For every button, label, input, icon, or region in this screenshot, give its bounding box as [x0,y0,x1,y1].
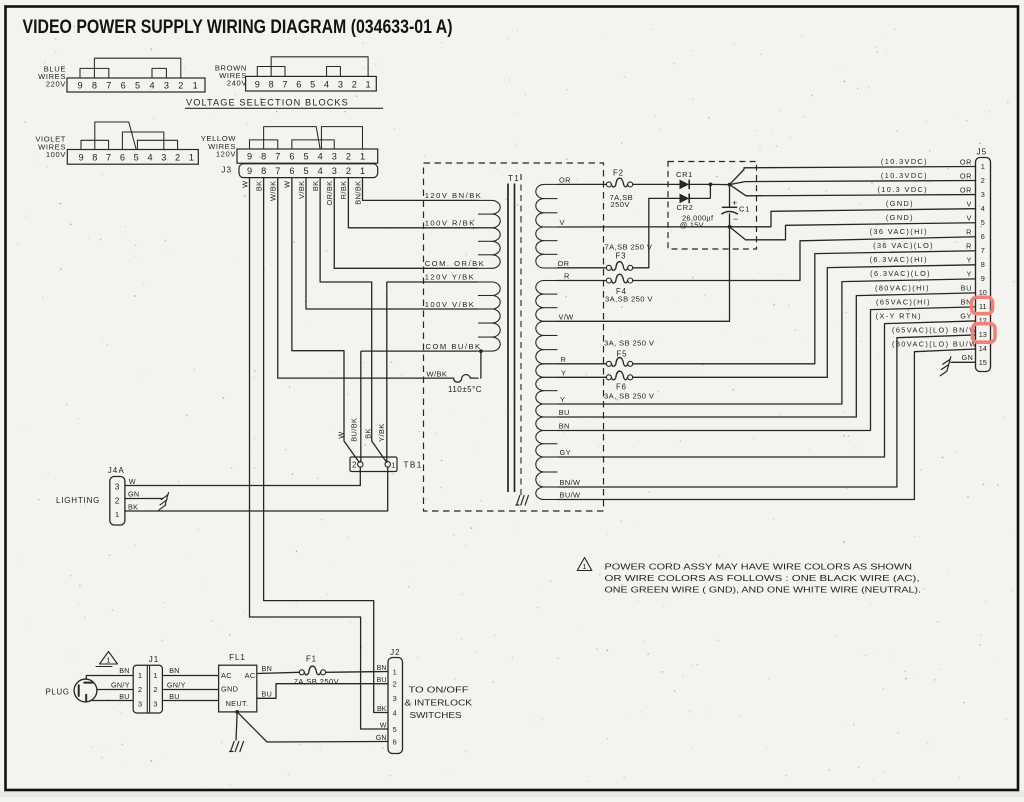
wire Y/BK into T1 [387,281,478,283]
jumper 120V pins 6-3 [292,140,334,149]
wire R tap to F5 [558,363,607,365]
svg-text:120V BN/BK: 120V BN/BK [425,191,483,200]
svg-text:NEUT.: NEUT. [226,699,249,708]
svg-text:+: + [732,197,737,207]
voltage block YELLOW WIRES 120V (9..1) [237,149,378,163]
svg-text:1: 1 [115,510,120,519]
jumper 100V pins 6-3 [122,132,163,150]
jumper 100V pins 5-2 [137,140,177,149]
svg-text:W: W [129,477,136,486]
svg-text:(6.3VAC)(HI): (6.3VAC)(HI) [870,255,928,264]
wire FL1 AC out BN to F1 [257,672,299,673]
plug wire GN/Y to J1-2 [97,689,133,691]
svg-text:VIDEO POWER SUPPLY WIRING DIAG: VIDEO POWER SUPPLY WIRING DIAGRAM (03463… [23,17,453,38]
wire FL1 NEUT BU to J2-2 [257,684,388,699]
jumper 220V pins 8-2 [94,58,180,78]
T1 primary winding 120V/100V (BN/BK,R/BK,OR/BK) [492,200,500,227]
warning triangle 1 note [577,558,592,571]
svg-text:BK: BK [377,706,387,713]
chassis ground below FL1 [230,742,244,752]
svg-text:J3: J3 [221,165,232,174]
svg-text:R/BK: R/BK [339,181,348,200]
svg-text:W: W [240,181,249,188]
svg-text:TO ON/OFF: TO ON/OFF [409,686,469,695]
svg-text:BN: BN [262,664,273,673]
svg-text:OR WIRE COLORS AS FOLLOWS :: OR WIRE COLORS AS FOLLOWS : ONE BLACK WI… [605,574,920,583]
svg-text:Y: Y [561,368,566,377]
svg-text:14: 14 [979,344,987,353]
chassis ground at J5-15 [940,357,951,376]
diode CR2 [680,194,690,204]
svg-text:SWITCHES: SWITCHES [410,711,462,720]
svg-text:F6: F6 [616,382,627,391]
wire J5-15 GN with chassis ground [951,361,976,363]
thermal fuse 110+-5C symbol [454,375,479,383]
plug wire BU to J1-3 [90,700,134,702]
FL1 ground node [235,710,239,714]
svg-text:GY: GY [560,448,571,457]
svg-text:8: 8 [269,79,274,89]
connector J1 [133,665,162,713]
svg-text:J1: J1 [149,655,159,664]
svg-text:OR: OR [960,185,972,194]
svg-text:3: 3 [338,79,343,89]
voltage block BLUE WIRES 220V (9..1) [67,78,205,92]
riser TB1-2 BU/BK up to COM [360,351,362,462]
svg-text:BU/BK: BU/BK [350,418,359,442]
wire J3-9 W to J2-5 [250,617,389,729]
svg-text:3: 3 [153,700,158,709]
svg-text:(6.3VAC)(LO): (6.3VAC)(LO) [870,269,931,278]
wire C1- to J5-4 (GND V) [730,209,976,227]
svg-text:120V Y/BK: 120V Y/BK [425,273,476,282]
fuse F2 [606,182,611,187]
svg-text:13: 13 [979,330,987,339]
svg-text:4: 4 [324,79,329,89]
jumper 240V pins 8-1 [271,57,368,77]
svg-text:11: 11 [979,302,987,311]
wire J3-5 V/BK to T1 100V [306,178,478,309]
wire C1- to J5-5 (GND V) [730,223,976,240]
svg-text:7: 7 [275,152,280,162]
connector J2 [388,658,403,754]
svg-text:2: 2 [115,495,120,505]
svg-text:(X-Y RTN): (X-Y RTN) [876,311,922,320]
svg-text:W/BK: W/BK [426,369,447,378]
svg-text:BN: BN [559,422,570,431]
svg-text:1: 1 [391,460,395,469]
svg-text:9: 9 [247,152,252,162]
svg-text:BN: BN [169,666,180,675]
svg-text:6: 6 [289,152,294,162]
svg-text:1: 1 [153,671,158,680]
wire F2 to CR1 [633,183,680,185]
svg-text:V: V [560,218,565,227]
red annotation box around J5 pin 13 [973,324,996,343]
svg-text:& INTERLOCK: & INTERLOCK [405,698,473,707]
svg-text:Y: Y [967,256,972,265]
svg-text:7: 7 [275,166,280,176]
svg-text:1: 1 [366,79,371,89]
svg-text:7: 7 [282,79,287,89]
svg-text:1: 1 [360,166,365,176]
svg-text:2: 2 [346,152,351,162]
chassis ground at J4A GN [159,493,169,511]
wire OR tap to F2 [558,183,607,185]
wire TB1-2 down-left to J4A-3 (W) [125,467,360,486]
svg-text:220V: 220V [46,80,66,89]
connector J5 [976,158,991,372]
svg-text:R: R [561,355,567,364]
svg-text:BK: BK [311,181,320,192]
svg-text:100V: 100V [46,150,66,159]
svg-text:7: 7 [981,246,985,255]
svg-text:8: 8 [261,166,266,176]
svg-text:V: V [967,199,972,208]
svg-text:3A,SB 250 V: 3A,SB 250 V [605,294,653,303]
voltage block BROWN WIRES 240V (9..1) [246,76,377,91]
svg-text:1: 1 [189,153,194,163]
wire to J5-2 (10.3VDC OR) [730,181,976,185]
wire CR2 cathode up to CR1 output [709,184,711,198]
svg-text:6: 6 [296,79,301,89]
T1 primary winding 120V/100V (Y/BK,V/BK,BU/BK) [492,282,500,309]
svg-text:4: 4 [981,204,985,213]
wire TB1-1 down-left to J4A-1 (BK) [125,467,388,511]
svg-text:W: W [336,431,345,438]
svg-text:9: 9 [255,79,260,89]
junction node rectifier output [710,183,729,185]
svg-text:R: R [564,271,570,280]
voltage block VIOLET WIRES 100V (9..1) [67,150,198,165]
svg-text:5: 5 [393,725,398,734]
svg-text:F5: F5 [617,349,628,358]
svg-text:3A, SB 250 V: 3A, SB 250 V [604,338,655,347]
svg-text:−: − [733,214,738,224]
svg-text:BN/BK: BN/BK [353,181,362,205]
svg-text:1: 1 [360,152,365,162]
svg-text:V/BK: V/BK [297,181,306,199]
wire FL1 gnd down to chassis ground [236,712,237,741]
wire COM BU/BK from TB1 riser [361,350,478,352]
svg-text:5: 5 [134,153,139,163]
svg-text:(65VAC)(HI): (65VAC)(HI) [876,297,931,306]
svg-text:AC: AC [221,671,232,680]
svg-text:Y/BK: Y/BK [377,423,386,441]
wire J3-4 BK down [319,178,321,282]
svg-text:POWER CORD ASSY MAY HAVE WI: POWER CORD ASSY MAY HAVE WIRE COLORS AS … [605,562,913,571]
svg-text:5: 5 [303,152,308,162]
wire F3 to CR2 riser [633,198,680,267]
svg-text:7: 7 [106,153,111,163]
fuse F3 [606,265,611,270]
wire J1 to FL1 BN [162,675,218,677]
svg-text:8: 8 [92,153,97,163]
svg-text:3A, SB 250 V: 3A, SB 250 V [604,391,655,400]
T1 secondary winding lower stack (R..BU/W) [536,281,544,322]
svg-text:GN/Y: GN/Y [167,680,186,689]
svg-text:GN: GN [128,490,139,499]
svg-text:2: 2 [153,685,158,694]
wire J3-6 W down [291,178,293,351]
svg-text:PLUG: PLUG [46,688,70,697]
jumper 100V pins 9-7 [81,140,109,149]
svg-text:V: V [967,214,972,223]
svg-text:2: 2 [178,80,183,90]
svg-text:R: R [966,228,972,237]
wire Y tap to J5-9 (6.3VAC LO Y) [558,279,976,404]
svg-text:6: 6 [981,232,985,241]
svg-text:BU: BU [377,677,387,684]
svg-text:2: 2 [346,166,351,176]
rectifier dashed box (CR1 CR2 C1) [668,162,757,250]
wire Y tap to F6 [558,376,607,378]
wire F4 out to J5-6 (36VAC HI R) [633,237,976,281]
warning triangle 1 near J1 [96,652,118,667]
svg-text:T1: T1 [508,174,520,183]
svg-text:100V R/BK: 100V R/BK [425,218,476,227]
svg-text:F3: F3 [616,251,627,260]
terminal block TB1 [350,457,397,472]
svg-text:5: 5 [310,79,315,89]
svg-text:8: 8 [261,152,266,162]
diode CR1 [680,180,690,190]
wire to J5-3 (10.3VDC OR) [730,185,976,196]
svg-text:BK: BK [363,428,372,439]
svg-text:W: W [380,722,387,729]
jumper 220V pins 4-3 [152,68,166,78]
svg-text:8: 8 [92,80,97,90]
T1 electrostatic shield (dashed) with ground [520,174,522,496]
svg-text:(10.3VDC): (10.3VDC) [881,157,928,166]
wire J3-8 BK down [263,178,265,601]
svg-text:1: 1 [138,671,143,680]
svg-text:5: 5 [303,166,308,176]
svg-text:V/W: V/W [559,312,574,321]
jumper 120V pins 9-7 [250,140,278,149]
ground for T1 shield [516,496,528,506]
svg-text:1: 1 [582,562,587,571]
wire J3-9 W down [249,178,251,617]
svg-text:(36 VAC)(LO): (36 VAC)(LO) [873,241,934,250]
svg-text:6: 6 [120,153,125,163]
plug wire BN to J1-1 [86,676,133,680]
wire J3-7 W/BK down to thermal fuse [278,178,454,379]
svg-text:4: 4 [149,80,154,90]
svg-text:FL1: FL1 [229,653,246,662]
svg-text:COM. OR/BK: COM. OR/BK [425,259,486,268]
svg-text:BU: BU [559,408,570,417]
svg-text:Y: Y [967,270,972,279]
jumper 120V pins 8-4 with diagonal [264,127,321,149]
svg-text:OR: OR [558,259,570,268]
wire BU/W tap to J5-14 (80VAC LO BU/W) [558,349,976,500]
svg-text:BU: BU [169,692,180,701]
fuse F5 [606,361,611,366]
wire F6 out to J5-8 (6.3VAC HI Y) [633,265,976,377]
wire J3-2 R/BK to T1 100V [348,178,478,228]
svg-text:J5: J5 [977,148,988,157]
fuse F1 [299,670,304,675]
svg-text:OR: OR [960,171,972,180]
svg-text:100V V/BK: 100V V/BK [425,300,476,309]
wire J3-1 BN/BK to T1 120V [363,178,479,201]
wire BN tap to J5-11 (65VAC HI BN) [558,307,976,431]
svg-text:5: 5 [135,80,140,90]
svg-text:9: 9 [981,274,985,283]
svg-text:2: 2 [981,176,985,185]
svg-text:3: 3 [115,482,120,492]
svg-text:3: 3 [332,166,337,176]
svg-text:BN: BN [119,666,130,675]
svg-text:GND: GND [221,684,238,693]
svg-text:BU: BU [119,692,130,701]
J4A pin2 wire GN to chassis ground [125,498,163,500]
connector J4A [110,477,125,526]
wire J3-4 BK to TB1-1 [320,282,386,462]
svg-text:OR: OR [559,175,571,184]
svg-text:ONE GREEN WIRE ( GND), AND: ONE GREEN WIRE ( GND), AND ONE WHITE WIR… [605,585,922,594]
svg-text:J2: J2 [390,648,400,657]
wire J3-3 OR/BK to T1 COM [334,178,478,269]
svg-text:2: 2 [393,680,398,689]
svg-text:250V: 250V [611,200,631,209]
wire V tap to C1 junction [558,226,730,228]
svg-text:R: R [966,242,972,251]
svg-text:2: 2 [352,461,357,470]
svg-text:J4A: J4A [108,466,125,475]
svg-text:8: 8 [981,260,985,269]
wire GY tap to J5-12 (X-Y RTN GY) [558,321,976,457]
svg-text:(10.3VDC): (10.3VDC) [881,171,928,180]
wire J3-8 BK to J2-4 [264,601,388,713]
svg-text:(80VAC)(LO) BU/W: (80VAC)(LO) BU/W [892,339,978,348]
svg-text:GN: GN [376,735,387,742]
plug symbol [74,679,97,702]
svg-text:GY: GY [960,312,972,321]
wire R tap to F4 [558,280,607,282]
svg-text:1: 1 [106,656,111,665]
svg-text:BN/W: BN/W [560,478,581,487]
wire J1 to FL1 BU [162,700,218,702]
svg-text:2: 2 [352,79,357,89]
jumper 220V pins 9-7 [80,68,109,78]
svg-text:W: W [283,181,292,188]
svg-text:LIGHTING: LIGHTING [56,496,100,505]
T1 core lines [507,184,509,493]
svg-text:(GND): (GND) [886,213,914,222]
jumper 100V pins 8-5 with diagonal [95,122,136,150]
wire V/W tap to C1 minus [558,227,730,321]
svg-text:BU/W: BU/W [560,491,581,500]
svg-text:W/BK: W/BK [269,181,278,202]
svg-text:6: 6 [121,80,126,90]
svg-text:CR2: CR2 [677,203,694,212]
svg-text:Y: Y [560,395,565,404]
svg-text:2: 2 [175,153,180,163]
svg-text:F2: F2 [613,169,624,178]
fuse F4 [606,278,611,283]
wire J3-6 W to TB1-2 [292,351,359,463]
svg-text:COM BU/BK: COM BU/BK [426,342,482,351]
fuse F6 [606,375,611,380]
wire OR tap to F3 [558,267,607,269]
svg-text:6: 6 [289,166,294,176]
T1 secondary winding upper (OR,V,OR) [536,184,544,227]
svg-text:BK: BK [128,502,138,511]
svg-text:BK: BK [254,181,263,192]
svg-text:OR: OR [960,157,972,166]
svg-text:OR/BK: OR/BK [325,181,334,206]
svg-text:7A,SB 250V: 7A,SB 250V [294,677,340,686]
svg-text:(GND): (GND) [886,199,914,208]
svg-text:240V: 240V [227,79,247,88]
svg-text:6: 6 [393,738,398,747]
svg-text:GN/Y: GN/Y [111,680,130,689]
svg-text:7: 7 [106,80,111,90]
wire J1 to FL1 GN/Y [162,689,218,691]
jumper 240V pins 9-7 [257,67,285,77]
svg-text:5: 5 [981,218,985,227]
svg-text:@ 15V: @ 15V [680,220,704,229]
svg-text:3: 3 [161,153,166,163]
svg-text:4: 4 [318,152,323,162]
connector J3 (9..1) [239,164,378,178]
wire F5 out to J5-7 (36VAC LO R) [633,251,976,364]
riser TB1-1 Y/BK up to 120V Y/BK line [386,282,388,463]
red annotation box around J5 pin 11 [972,297,993,313]
svg-text:(80VAC)(HI): (80VAC)(HI) [875,283,930,292]
svg-text:3: 3 [332,152,337,162]
line filter FL1 [219,665,257,712]
svg-text:15: 15 [979,358,987,367]
svg-text:1: 1 [981,162,985,171]
svg-text:VOLTAGE SELECTION BLOCKS: VOLTAGE SELECTION BLOCKS [186,98,349,108]
svg-text:9: 9 [78,153,83,163]
svg-text:3: 3 [164,80,169,90]
wire thermal fuse to COM BU/BK junction [480,351,482,378]
svg-text:1: 1 [193,80,198,90]
svg-text:TB1: TB1 [404,461,423,470]
wire BN/W tap to J5-13 (65VAC LO BN/W) [558,335,976,487]
wire FL1 gnd diagonal to J2-6 GN [237,712,388,742]
svg-text:BU: BU [262,690,273,699]
svg-text:9: 9 [247,166,252,176]
svg-text:(10.3 VDC): (10.3 VDC) [878,185,929,194]
jumper 240V pins 4-3 [327,67,341,77]
svg-text:3: 3 [138,700,143,709]
capacitor C1 [729,185,731,208]
wire F1 to J2-1 [326,671,388,674]
svg-text:BU: BU [961,284,972,293]
jumper 120V pins 4-1 [321,127,362,149]
svg-text:4: 4 [318,166,323,176]
svg-text:GN: GN [962,353,973,362]
svg-text:9: 9 [77,80,82,90]
svg-text:110±5°C: 110±5°C [448,385,482,394]
svg-text:AC: AC [245,671,256,680]
svg-text:7A,SB 250 V: 7A,SB 250 V [605,242,653,251]
svg-text:3: 3 [981,190,985,199]
svg-text:C1: C1 [739,204,750,213]
svg-text:4: 4 [147,153,152,163]
wire BU tap to J5-10 (80VAC HI BU) [558,293,976,417]
svg-text:120V: 120V [216,150,236,159]
svg-text:BN: BN [377,665,387,672]
svg-text:CR1: CR1 [676,170,693,179]
rectifier output junction to J5-1 (10.3VDC OR) [730,167,976,185]
svg-text:(36 VAC)(HI): (36 VAC)(HI) [870,227,928,236]
